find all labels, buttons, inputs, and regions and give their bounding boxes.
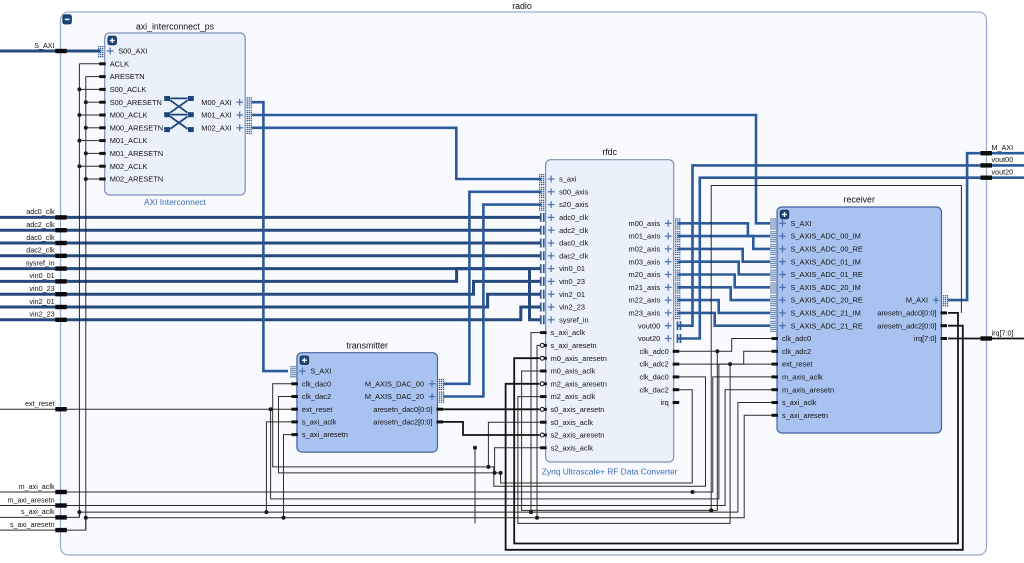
svg-text:ext_reset: ext_reset [25,399,55,408]
svg-text:clk_adc2: clk_adc2 [640,360,669,369]
svg-text:s2_axis_aresetn: s2_axis_aresetn [551,431,605,440]
pin transmitter aresetn_dac2[0:0] [373,418,443,427]
port irq[7:0] (external right) [981,328,1014,340]
svg-text:S_AXIS_ADC_20_IM: S_AXIS_ADC_20_IM [791,283,861,292]
wire receiver irq to external port irq [948,338,1024,340]
svg-text:s0_axis_aclk: s0_axis_aclk [551,418,594,427]
port vin0_01 (external left) [29,271,66,283]
port vin0_23 (external left) [29,284,66,296]
pin rfdc s_axi_aclk [540,328,585,337]
pin receiver m_axis_aclk [772,373,823,382]
pin rfdc dac2_clk [540,251,589,260]
svg-text:receiver: receiver [844,195,875,205]
svg-text:dac2_clk: dac2_clk [26,246,55,255]
pin axi_interconnect_ps M01_AXI [201,110,252,121]
wire stub ARESETN row 4 [86,101,100,103]
svg-text:m2_axis_aresetn: m2_axis_aresetn [551,379,607,388]
port vin2_23 (external left) [29,310,66,322]
wire rfdc m02_axis to receiver S_AXIS_ADC_01_IM [678,249,770,262]
pin axi_interconnect_ps S00_ARESETN [99,98,162,107]
wire adc0_clk external to rfdc [0,216,542,219]
wire M_AXIS_DAC_20 to rfdc s20_axis [444,205,542,397]
svg-text:adc2_clk: adc2_clk [559,226,588,235]
pin transmitter s_axi_aclk [291,418,336,427]
wire adc2_clk external to rfdc [0,229,542,232]
port S_AXI (external left) [34,41,67,53]
svg-text:dac2_clk: dac2_clk [559,251,588,260]
pin rfdc clk_dac0 [640,373,680,382]
svg-text:M01_ACLK: M01_ACLK [110,136,148,145]
pin receiver clk_adc2 [772,347,812,356]
svg-text:m20_axis: m20_axis [629,270,661,279]
junction at 79.4,140.6 [77,139,81,143]
wire m_axi_aclk external to receiver m_axis_aclk [0,377,772,492]
svg-text:vin0_23: vin0_23 [559,277,585,286]
block axi_interconnect_ps [105,33,246,195]
svg-text:aresetn_dac0[0:0]: aresetn_dac0[0:0] [373,405,432,414]
pin receiver aresetn_adc2[0:0] [877,321,947,330]
svg-text:s_axi: s_axi [559,175,577,184]
svg-text:vout00: vout00 [638,321,660,330]
pin axi_interconnect_ps S00_ACLK [99,85,146,94]
pin transmitter S_AXI [290,366,331,377]
pin receiver ext_reset [772,360,813,369]
junction at 79.4,115.0 [77,113,81,117]
pin axi_interconnect_ps M02_ARESETN [99,175,163,184]
junction at 79.4,166.2 [77,164,81,168]
svg-text:clk_dac2: clk_dac2 [640,385,669,394]
pin receiver S_AXIS_ADC_21_IM [770,308,860,319]
pin rfdc s0_axis_aresetn [540,405,604,414]
svg-text:s_axi_aresetn: s_axi_aresetn [782,411,828,420]
svg-text:S_AXIS_ADC_01_IM: S_AXIS_ADC_01_IM [791,257,861,266]
wire stub ARESETN row 8 [86,152,100,154]
svg-text:m_axi_aclk: m_axi_aclk [19,482,55,491]
pin rfdc clk_adc0 [640,347,680,356]
wire s_axi_aclk branch to transmitter [266,422,293,512]
svg-text:vout20: vout20 [638,334,660,343]
svg-text:clk_dac0: clk_dac0 [640,373,669,382]
svg-text:S_AXI: S_AXI [791,219,812,228]
pin rfdc m21_axis [629,282,681,293]
svg-text:m_axis_aclk: m_axis_aclk [782,373,823,382]
svg-text:adc0_clk: adc0_clk [559,213,588,222]
wire stub ACLK row 3 [79,88,100,90]
junction at 537,517.8 [535,516,539,520]
svg-text:ext_reset: ext_reset [302,405,332,414]
wire stub ACLK row 7 [79,140,100,142]
pin receiver irq[7:0] [914,334,947,343]
pin transmitter ext_reset [291,405,332,414]
wire stub ARESETN row 10 [86,178,100,180]
pin receiver S_AXIS_ADC_20_IM [770,282,860,293]
svg-text:ARESETN: ARESETN [110,72,145,81]
block rfdc (Zynq Ultrascale+ RF Data Converter) [546,160,674,462]
pin rfdc m22_axis [629,295,681,306]
pin rfdc adc2_clk [540,226,589,235]
svg-text:clk_adc0: clk_adc0 [782,334,811,343]
svg-text:S00_ACLK: S00_ACLK [110,85,147,94]
pin receiver S_AXIS_ADC_00_RE [770,244,862,255]
wire transmitter aresetn_dac0 to rfdc s0_axis_aresetn [443,408,540,410]
wire transmitter aresetn_dac2 to rfdc s2_axis_aresetn [443,422,540,435]
pin rfdc s00_axis [539,187,589,198]
pin rfdc irq [660,398,679,407]
svg-text:M_AXIS_DAC_20: M_AXIS_DAC_20 [365,392,424,401]
pin receiver s_axi_aresetn [772,411,829,420]
svg-text:S00_AXI: S00_AXI [118,47,147,56]
pin axi_interconnect_ps M00_ARESETN [99,123,163,132]
svg-text:s_axi_aresetn: s_axi_aresetn [10,520,55,529]
wire rfdc clk_dac2 to transmitter clk_dac2 [279,390,693,483]
wire vin2_23 external to rfdc (jog up) [0,307,542,320]
svg-text:S_AXIS_ADC_21_RE: S_AXIS_ADC_21_RE [791,321,863,330]
svg-text:s_axi_aresetn: s_axi_aresetn [302,430,348,439]
junction at 266.4,512.1 [264,510,268,514]
svg-text:s_axi_aclk: s_axi_aclk [21,507,55,516]
wire rfdc m01_axis to receiver S_AXIS_ADC_00_RE [678,236,770,249]
svg-text:irq[7:0]: irq[7:0] [914,334,937,343]
junction at 500.6,472.9 [499,471,503,475]
wire ext_reset external to transmitter [0,408,293,410]
pin rfdc s20_axis [539,200,589,211]
svg-text:vin2_01: vin2_01 [559,290,585,299]
svg-text:m22_axis: m22_axis [629,296,661,305]
junction at 711.2,510.4 [709,508,713,512]
pin rfdc m0_axis_aresetn [540,354,607,363]
svg-text:s_axi_aclk: s_axi_aclk [302,418,337,427]
svg-text:vin2_01: vin2_01 [29,297,54,306]
svg-text:m02_axis: m02_axis [629,245,661,254]
svg-text:clk_dac0: clk_dac0 [302,379,331,388]
wire M02_AXI to rfdc s_axi [252,128,542,179]
wire ext_reset branch to receiver [271,364,772,499]
svg-text:clk_adc0: clk_adc0 [640,347,669,356]
svg-text:S_AXIS_ADC_21_IM: S_AXIS_ADC_21_IM [791,309,861,318]
pin rfdc clk_dac2 [640,385,680,394]
svg-text:M00_ACLK: M00_ACLK [110,111,148,120]
pin rfdc m01_axis [629,231,681,242]
pin rfdc m20_axis [629,270,681,281]
pin rfdc vin0_23 [540,277,585,286]
wire clk_dac0 branch to rfdc s0_axis_aclk [488,422,541,467]
svg-text:M01_ARESETN: M01_ARESETN [110,149,163,158]
wire vin0_01 external to rfdc (jog up) [0,269,542,282]
svg-text:ext_reset: ext_reset [782,360,812,369]
svg-text:M00_AXI: M00_AXI [201,98,231,107]
port adc2_clk (external left) [26,220,67,232]
svg-text:aresetn_adc2[0:0]: aresetn_adc2[0:0] [877,321,936,330]
wire clk_adc2 branch to rfdc m2_axis_aclk [518,364,730,523]
svg-text:aresetn_dac2[0:0]: aresetn_dac2[0:0] [373,418,432,427]
pin axi_interconnect_ps M02_AXI [201,123,252,134]
svg-text:AXI Interconnect: AXI Interconnect [144,197,207,207]
wire sysref_in external to rfdc (jog down) [0,269,542,320]
wire stub ARESETN row 2 [86,76,100,78]
icon axi crossbar switch [164,96,194,132]
port ext_reset (external left) [25,399,67,411]
pin rfdc vin2_23 [540,303,585,312]
pin transmitter M_AXIS_DAC_00 [365,379,444,390]
junction at 79.4,89.4 [77,87,81,91]
collapse button (minus) of radio [63,15,72,24]
pin axi_interconnect_ps M01_ACLK [99,136,147,145]
port vout00 (external right) [981,155,1014,167]
pin axi_interconnect_ps ACLK [99,59,129,68]
junction at 531,512.1 [529,510,533,514]
wire rfdc clk_dac0 to transmitter clk_dac0 [273,377,706,486]
pin rfdc clk_adc2 [640,360,680,369]
wire rfdc m23_axis to receiver S_AXIS_ADC_21_RE [678,313,770,326]
svg-text:aresetn_adc0[0:0]: aresetn_adc0[0:0] [877,309,936,318]
pin receiver s_axi_aclk [772,398,817,407]
port adc0_clk (external left) [26,207,67,219]
block receiver (hierarchy) [777,207,942,433]
pin transmitter M_AXIS_DAC_20 [365,392,444,403]
pin axi_interconnect_ps M00_ACLK [99,111,147,120]
port sysref_in (external left) [26,258,67,270]
junction at 85.8,153.4 [84,151,88,155]
pin rfdc s2_axis_aclk [540,443,593,452]
block transmitter (hierarchy) [297,353,438,452]
wire clk_dac2 branch to rfdc s2_axis_aclk [495,448,542,473]
svg-text:dac0_clk: dac0_clk [26,233,55,242]
wire rfdc m21_axis to receiver S_AXIS_ADC_20_RE [678,287,770,300]
svg-text:ACLK: ACLK [110,59,129,68]
pin receiver S_AXIS_ADC_01_RE [770,270,862,281]
junction at 494.6,472.9 [493,471,497,475]
junction at 85.8,102.2 [84,100,88,104]
svg-text:m23_axis: m23_axis [629,309,661,318]
svg-text:vin2_23: vin2_23 [29,310,54,319]
svg-text:s2_axis_aclk: s2_axis_aclk [551,443,594,452]
pin receiver aresetn_adc0[0:0] [877,309,947,318]
wire M00_AXI to transmitter S_AXI [252,102,288,371]
svg-text:dac0_clk: dac0_clk [559,239,588,248]
svg-text:s_axi_aresetn: s_axi_aresetn [551,341,597,350]
svg-text:M_AXIS_DAC_00: M_AXIS_DAC_00 [365,379,424,388]
svg-text:m21_axis: m21_axis [629,283,661,292]
pin receiver M_AXI [906,295,948,306]
svg-text:m2_axis_aclk: m2_axis_aclk [551,392,596,401]
svg-text:s20_axis: s20_axis [559,200,588,209]
port m_axi_aclk (external left) [19,482,67,494]
svg-text:vin0_23: vin0_23 [29,284,54,293]
svg-text:M_AXI: M_AXI [992,143,1014,152]
svg-text:S00_ARESETN: S00_ARESETN [110,98,162,107]
wire rfdc m22_axis to receiver S_AXIS_ADC_21_IM [678,300,770,313]
wire vin0_23 external to rfdc (jog up) [0,281,542,294]
wire s_axi_aclk trunk to axi_interconnect ACLK pins [78,64,80,518]
pin rfdc vout00 [638,321,681,330]
svg-text:m_axi_aresetn: m_axi_aresetn [7,495,54,504]
svg-text:rfdc: rfdc [602,147,617,157]
svg-text:S_AXIS_ADC_00_RE: S_AXIS_ADC_00_RE [791,245,863,254]
junction at 488.4,466.9 [486,465,490,469]
wire stub ACLK row 5 [79,114,100,116]
pin rfdc m23_axis [629,308,681,319]
svg-text:vout20: vout20 [992,168,1014,177]
wire s_axi_aresetn branch to transmitter [284,435,294,518]
wire s_axi_aresetn external line [0,415,772,530]
svg-text:M02_ACLK: M02_ACLK [110,162,148,171]
wire stub ACLK row 9 [79,165,100,167]
junction at 717.3,351.3 [715,349,719,353]
pin rfdc s_axi_aresetn [540,341,596,350]
wire overpass net above receiver [711,186,961,511]
pin receiver S_AXIS_ADC_21_RE [770,321,862,332]
junction at 85.8,517.8 [84,516,88,520]
svg-text:S_AXI: S_AXI [34,41,54,50]
pin axi_interconnect_ps M01_ARESETN [99,149,163,158]
wire rfdc clk_adc0 to receiver clk_adc0 [678,339,772,352]
pin axi_interconnect_ps M02_ACLK [99,162,147,171]
junction at 283.5,517.8 [282,516,286,520]
svg-text:irq[7:0]: irq[7:0] [992,328,1014,337]
svg-text:s_axi_aclk: s_axi_aclk [551,328,586,337]
svg-text:transmitter: transmitter [346,341,388,351]
svg-text:Zynq Ultrascale+ RF Data Conve: Zynq Ultrascale+ RF Data Converter [542,467,678,477]
wire dac0_clk external to rfdc [0,242,542,245]
port M_AXI (external right) [981,143,1014,155]
wire stub ACLK row 1 [79,63,100,65]
wire rfdc m20_axis to receiver S_AXIS_ADC_20_IM [678,275,770,288]
pin rfdc s_axi [539,174,577,185]
svg-text:vout00: vout00 [992,155,1014,164]
port vout20 (external right) [981,168,1014,180]
wire rfdc vout20 to external port vout20 [678,178,1024,339]
svg-text:S_AXIS_ADC_01_RE: S_AXIS_ADC_01_RE [791,270,863,279]
svg-text:M02_ARESETN: M02_ARESETN [110,175,163,184]
wire M01_AXI to receiver S_AXI [252,115,770,223]
pin rfdc m00_axis [629,218,681,229]
pin receiver S_AXI [770,218,811,229]
wire m_axi_aresetn external to receiver m_axis_aresetn [0,390,772,506]
junction at 85.8,179.0 [84,177,88,181]
pin rfdc m02_axis [629,244,681,255]
svg-text:M00_ARESETN: M00_ARESETN [110,123,163,132]
wire receiver aresetn_adc2 to rfdc m2_axis_aresetn [506,326,963,550]
junction at 730.1,364.1 [728,362,732,366]
svg-text:m03_axis: m03_axis [629,257,661,266]
wire s_axi_aclk external line [0,403,772,518]
pin rfdc s2_axis_aresetn [540,431,604,440]
svg-text:clk_dac2: clk_dac2 [302,392,331,401]
svg-text:m00_axis: m00_axis [629,219,661,228]
svg-text:sysref_in: sysref_in [559,315,589,324]
wire rfdc m00_axis to receiver S_AXIS_ADC_00_IM [678,223,770,236]
svg-text:m_axis_aresetn: m_axis_aresetn [782,385,834,394]
junction at 692.5,492 [691,490,695,494]
junction at 79.4,512.1 [77,510,81,514]
svg-text:radio: radio [512,1,532,11]
wire rfdc vout00 to external port vout00 [678,165,1024,325]
svg-text:vin0_01: vin0_01 [559,264,585,273]
pin rfdc vin0_01 [540,264,585,273]
pin axi_interconnect_ps S00_AXI [98,46,147,57]
svg-text:axi_interconnect_ps: axi_interconnect_ps [136,22,215,32]
pin rfdc sysref_in [540,315,589,324]
svg-text:m0_axis_aresetn: m0_axis_aresetn [551,354,607,363]
svg-text:s0_axis_aresetn: s0_axis_aresetn [551,405,605,414]
pin transmitter clk_dac0 [291,379,331,388]
svg-text:M02_AXI: M02_AXI [201,123,231,132]
svg-text:adc2_clk: adc2_clk [26,220,55,229]
wire stub ARESETN row 6 [86,127,100,129]
pin receiver S_AXIS_ADC_01_IM [770,257,860,268]
svg-text:S_AXI: S_AXI [310,367,331,376]
pin receiver clk_adc0 [772,334,812,343]
svg-text:vin0_01: vin0_01 [29,271,54,280]
pin rfdc vin2_01 [540,290,585,299]
wire s_axi_aclk branch to rfdc [531,333,542,512]
wire S_AXI external to axi_interconnect S00_AXI [0,50,101,53]
pin receiver S_AXIS_ADC_20_RE [770,295,862,306]
wire rfdc clk_adc2 to receiver clk_adc2 [678,351,772,364]
svg-text:clk_adc2: clk_adc2 [782,347,811,356]
port dac2_clk (external left) [26,246,67,258]
port vin2_01 (external left) [29,297,66,309]
port s_axi_aclk (external left) [21,507,67,519]
svg-text:M_AXI: M_AXI [906,296,928,305]
pin rfdc m2_axis_aresetn [540,379,607,388]
wire s_axi_aresetn trunk to axi_interconnect ARESETN pins [85,77,87,530]
wire s_axi_aresetn branch to rfdc [537,345,542,517]
svg-text:s_axi_aclk: s_axi_aclk [782,398,817,407]
pin rfdc m0_axis_aclk [540,367,596,376]
svg-text:M01_AXI: M01_AXI [201,111,231,120]
pin transmitter aresetn_dac0[0:0] [373,405,443,414]
wire M_AXIS_DAC_00 to rfdc s00_axis [444,192,542,384]
svg-text:S_AXIS_ADC_00_IM: S_AXIS_ADC_00_IM [791,232,861,241]
port m_axi_aresetn (external left) [7,495,66,507]
pin rfdc s0_axis_aclk [540,418,593,427]
svg-text:s00_axis: s00_axis [559,187,588,196]
pin rfdc m03_axis [629,257,681,268]
wire dac2_clk external to rfdc [0,254,542,257]
junction at 270.6,409.2 [269,407,273,411]
svg-text:S_AXIS_ADC_20_RE: S_AXIS_ADC_20_RE [791,296,863,305]
wire rfdc m03_axis to receiver S_AXIS_ADC_01_RE [678,262,770,275]
wire receiver M_AXI to external port M_AXI [948,153,1024,300]
pin rfdc adc0_clk [540,213,589,222]
pin rfdc m2_axis_aclk [540,392,596,401]
svg-text:m0_axis_aclk: m0_axis_aclk [551,367,596,376]
svg-text:irq: irq [660,398,668,407]
pin rfdc dac0_clk [540,239,589,248]
svg-text:vin2_23: vin2_23 [559,303,585,312]
svg-text:sysref_in: sysref_in [26,258,55,267]
pin axi_interconnect_ps M00_AXI [201,97,252,108]
wire clk_adc0 branch to rfdc m0_axis_aclk [522,351,718,510]
svg-text:adc0_clk: adc0_clk [26,207,55,216]
pin receiver S_AXIS_ADC_00_IM [770,231,860,242]
pin transmitter clk_dac2 [291,392,331,401]
pin axi_interconnect_ps ARESETN [99,72,144,81]
port s_axi_aresetn (external left) [10,520,67,532]
wire s2_axis_aclk auxiliary branch [474,448,476,524]
pin transmitter s_axi_aresetn [291,430,348,439]
wire receiver aresetn_adc0 to rfdc m0_axis_aresetn [514,313,958,544]
junction at 475,447.8 [473,446,477,450]
wire vin2_01 external to rfdc (jog up) [0,294,542,307]
port dac0_clk (external left) [26,233,67,245]
pin receiver m_axis_aresetn [772,385,835,394]
svg-text:m01_axis: m01_axis [629,232,661,241]
junction at 85.8,127.8 [84,126,88,130]
pin rfdc vout20 [638,334,681,343]
